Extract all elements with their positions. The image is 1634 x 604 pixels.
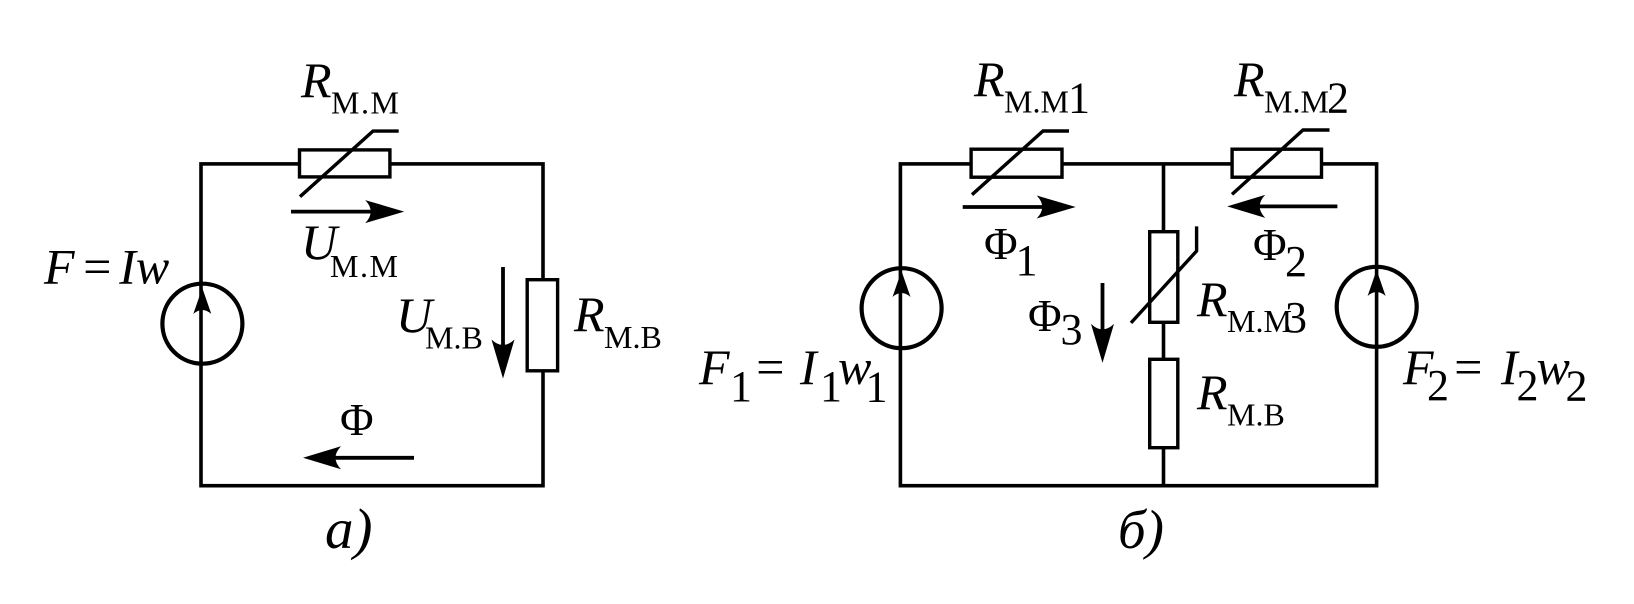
svg-text:Φ: Φ xyxy=(340,394,374,445)
svg-text:3: 3 xyxy=(1285,293,1307,342)
svg-text:R: R xyxy=(1196,364,1228,420)
svg-text:а): а) xyxy=(325,498,372,561)
svg-text:2: 2 xyxy=(1427,361,1449,410)
svg-text:1: 1 xyxy=(1068,74,1090,123)
svg-text:Φ: Φ xyxy=(1253,219,1287,270)
svg-text:М.В: М.В xyxy=(425,320,483,356)
svg-text:2: 2 xyxy=(1517,361,1539,410)
svg-text:1: 1 xyxy=(1016,236,1038,285)
svg-text:М.М: М.М xyxy=(1004,84,1069,120)
svg-text:М.М: М.М xyxy=(330,248,399,284)
svg-text:М.М: М.М xyxy=(1264,84,1329,120)
svg-text:М.В: М.В xyxy=(604,319,662,355)
svg-text:3: 3 xyxy=(1061,305,1083,354)
svg-text:М.М: М.М xyxy=(331,85,400,121)
svg-text:F: F xyxy=(698,339,730,395)
svg-text:1: 1 xyxy=(730,362,752,411)
svg-text:R: R xyxy=(973,51,1005,107)
svg-text:=: = xyxy=(1451,339,1485,395)
svg-text:=: = xyxy=(753,339,787,395)
svg-text:М.В: М.В xyxy=(1227,397,1285,433)
svg-text:R: R xyxy=(573,286,605,342)
svg-text:2: 2 xyxy=(1327,74,1349,123)
svg-text:F = Iw: F = Iw xyxy=(43,239,169,295)
svg-text:Φ: Φ xyxy=(1028,290,1062,341)
svg-text:R: R xyxy=(300,52,332,108)
svg-text:2: 2 xyxy=(1566,362,1588,411)
svg-text:2: 2 xyxy=(1285,237,1307,286)
svg-text:R: R xyxy=(1233,51,1265,107)
svg-text:I: I xyxy=(799,339,819,395)
svg-text:б): б) xyxy=(1118,499,1164,560)
svg-text:R: R xyxy=(1196,271,1228,327)
svg-text:1: 1 xyxy=(866,363,888,412)
svg-text:М.М: М.М xyxy=(1227,303,1292,339)
svg-text:Φ: Φ xyxy=(984,218,1018,269)
